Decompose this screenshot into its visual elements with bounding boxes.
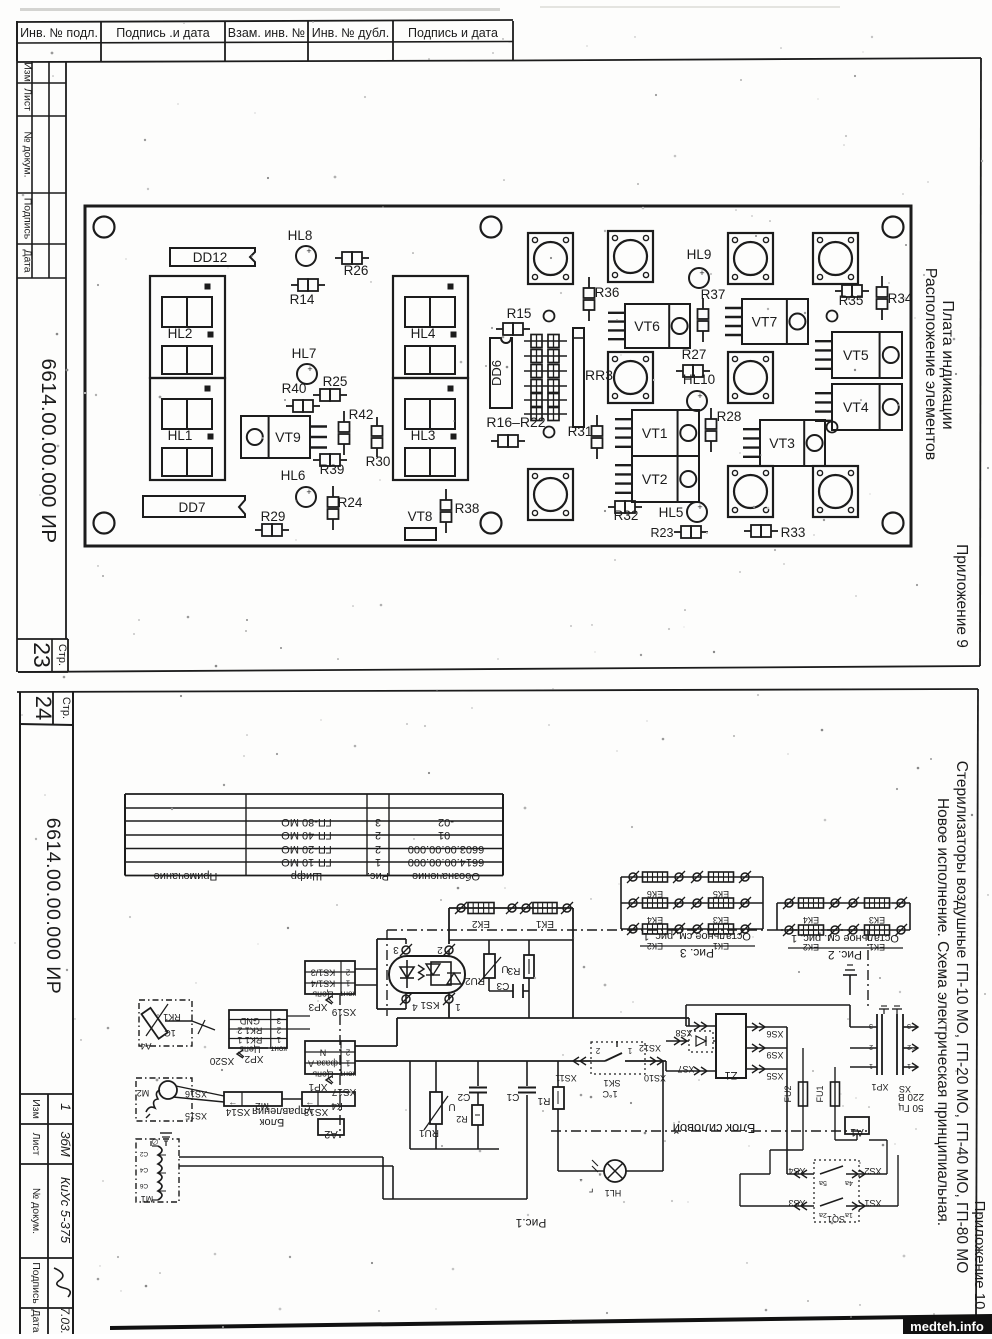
svg-text:ЕК2: ЕК2: [472, 918, 490, 929]
svg-text:Изм: Изм: [30, 1099, 42, 1119]
svg-text:XS3: XS3: [788, 1198, 805, 1208]
svg-text:∅: ∅: [151, 1137, 158, 1146]
svg-text:XS16: XS16: [185, 1089, 207, 1099]
svg-text:VT3: VT3: [769, 435, 795, 451]
svg-text:U: U: [501, 963, 508, 974]
svg-text:HL5: HL5: [659, 505, 684, 520]
svg-text:Остальное см. рис. 1: Остальное см. рис. 1: [791, 932, 899, 944]
svg-text:R25: R25: [323, 374, 348, 389]
svg-text:Изм: Изм: [22, 62, 34, 82]
svg-text:R2: R2: [456, 1114, 468, 1124]
svg-text:XS10: XS10: [644, 1073, 666, 1083]
svg-text:М2: М2: [137, 1088, 150, 1098]
svg-text:RK1 1: RK1 1: [237, 1035, 262, 1045]
svg-text:DD7: DD7: [178, 500, 205, 515]
svg-text:R26: R26: [344, 263, 369, 278]
svg-text:управления: управления: [252, 1105, 312, 1117]
svg-text:Рис. 3: Рис. 3: [680, 946, 714, 960]
svg-text:1: 1: [58, 1103, 74, 1111]
svg-text:К4: К4: [331, 1100, 343, 1111]
svg-text:2: 2: [345, 1048, 350, 1057]
svg-text:R1: R1: [537, 1095, 550, 1106]
svg-text:С6: С6: [139, 1182, 148, 1189]
svg-text:R29: R29: [261, 509, 286, 524]
svg-text:Рис.: Рис.: [367, 870, 389, 882]
svg-text:R35: R35: [839, 293, 864, 308]
svg-text:R32: R32: [614, 508, 639, 523]
svg-text:Цепь: Цепь: [312, 990, 334, 1000]
svg-text:2: 2: [375, 843, 381, 855]
svg-text:6614.00.00.000 ИР: 6614.00.00.000 ИР: [42, 818, 64, 995]
svg-text:HL10: HL10: [683, 372, 715, 387]
svg-text:3: 3: [375, 816, 381, 828]
svg-text:Приложение 10: Приложение 10: [971, 1201, 988, 1310]
svg-text:1°С: 1°С: [602, 1089, 618, 1099]
svg-text:1: 1: [907, 1062, 911, 1069]
svg-text:HL1: HL1: [605, 1188, 622, 1198]
svg-text:1: 1: [276, 1035, 281, 1044]
svg-text:Стерилизаторы воздушные ГП-10: Стерилизаторы воздушные ГП-10 МО, ГП-20 …: [953, 761, 970, 1274]
svg-text:24: 24: [31, 696, 56, 720]
svg-text:VT4: VT4: [843, 399, 869, 415]
svg-text:1: 1: [345, 979, 350, 988]
svg-text:R23: R23: [651, 526, 674, 540]
svg-text:KS1/3: KS1/3: [311, 968, 336, 978]
svg-text:ЕК4: ЕК4: [803, 915, 819, 925]
svg-text:2а: 2а: [819, 1211, 827, 1218]
svg-text:N: N: [320, 1048, 327, 1058]
svg-text:Подпись: Подпись: [22, 198, 34, 240]
svg-text:Расположение элементов: Расположение элементов: [922, 268, 939, 461]
svg-text:Стр.: Стр.: [56, 644, 68, 666]
svg-text:R28: R28: [717, 409, 742, 424]
svg-text:RK1 2: RK1 2: [237, 1025, 262, 1035]
svg-text:HL4: HL4: [411, 326, 436, 341]
svg-text:R39: R39: [320, 462, 345, 477]
svg-text:6603.00.00.000: 6603.00.00.000: [408, 843, 484, 855]
svg-text:1: 1: [375, 856, 381, 868]
svg-text:6614.00.00.000 ИР: 6614.00.00.000 ИР: [37, 358, 60, 543]
svg-text:R24: R24: [338, 495, 363, 510]
svg-text:HL9: HL9: [687, 247, 712, 262]
svg-text:2: 2: [595, 1046, 600, 1055]
svg-text:ЕК1: ЕК1: [536, 918, 554, 929]
svg-text:220 В: 220 В: [898, 1091, 924, 1102]
svg-text:Дата: Дата: [22, 249, 34, 272]
svg-text:+: +: [697, 391, 702, 401]
svg-text:KS1: KS1: [420, 999, 439, 1010]
svg-text:+: +: [307, 364, 312, 374]
svg-text:VT5: VT5: [843, 347, 869, 363]
svg-text:М1: М1: [141, 1194, 154, 1204]
svg-text:Остальное см. рис. 1: Остальное см. рис. 1: [643, 930, 751, 942]
svg-text:2: 2: [276, 1025, 281, 1034]
svg-text:R27: R27: [682, 347, 707, 362]
svg-text:XS5: XS5: [766, 1071, 783, 1081]
svg-text:HL6: HL6: [281, 468, 306, 483]
svg-text:С4: С4: [139, 1166, 148, 1173]
svg-text:R34: R34: [888, 291, 913, 306]
svg-text:XS8: XS8: [675, 1028, 692, 1038]
svg-text:SQ1: SQ1: [827, 1214, 845, 1224]
svg-text:medteh.info: medteh.info: [910, 1319, 984, 1334]
svg-text:3: 3: [869, 1022, 873, 1029]
svg-text:1: 1: [869, 1062, 873, 1069]
svg-text:HL8: HL8: [288, 228, 313, 243]
svg-text:1: 1: [627, 1046, 632, 1055]
svg-text:50 Гц: 50 Гц: [898, 1102, 923, 1113]
svg-text:7.03.0: 7.03.0: [58, 1307, 72, 1334]
svg-text:DD6: DD6: [489, 360, 504, 386]
svg-text:2: 2: [869, 1043, 873, 1050]
svg-text:DD12: DD12: [193, 250, 228, 265]
svg-text:Блок силовой: Блок силовой: [673, 1121, 756, 1136]
svg-text:Примечание: Примечание: [154, 870, 218, 882]
svg-text:Дата: Дата: [30, 1309, 42, 1332]
svg-text:+: +: [697, 502, 702, 512]
svg-text:XP1: XP1: [308, 1081, 327, 1092]
svg-text:-01: -01: [438, 829, 454, 841]
svg-text:HL1: HL1: [168, 428, 193, 443]
svg-text:Инв. № дубл.: Инв. № дубл.: [312, 26, 389, 40]
svg-text:Подпись: Подпись: [30, 1262, 42, 1304]
svg-text:Подпись и дата: Подпись и дата: [408, 26, 498, 40]
svg-text:R14: R14: [290, 292, 315, 307]
svg-text:ХР1: ХР1: [871, 1082, 888, 1092]
svg-text:ГП-10 МО: ГП-10 МО: [281, 856, 332, 868]
svg-text:R38: R38: [455, 501, 480, 516]
svg-text:1: 1: [345, 1059, 350, 1068]
svg-text:R15: R15: [507, 306, 532, 321]
svg-text:XS11: XS11: [555, 1073, 576, 1083]
svg-text:R33: R33: [781, 525, 806, 540]
svg-text:А4: А4: [140, 1041, 151, 1051]
svg-text:XS6: XS6: [766, 1029, 783, 1039]
svg-text:2: 2: [907, 1043, 911, 1050]
svg-text:„: „: [580, 1172, 583, 1182]
svg-text:Взам. инв. №: Взам. инв. №: [228, 26, 305, 40]
svg-text:3: 3: [276, 1016, 281, 1025]
svg-text:6614.00.00.000: 6614.00.00.000: [408, 856, 484, 868]
svg-text:С2: С2: [139, 1150, 148, 1157]
svg-text:фаза А: фаза А: [308, 1059, 338, 1069]
svg-text:R37: R37: [701, 287, 726, 302]
svg-text:конт: конт: [270, 1044, 286, 1053]
svg-text:-02: -02: [438, 816, 454, 828]
svg-text:HL2: HL2: [168, 326, 193, 341]
svg-text:XP2: XP2: [244, 1053, 263, 1064]
svg-text:КиУс 5-375: КиУс 5-375: [58, 1177, 73, 1244]
svg-text:FU1: FU1: [815, 1085, 825, 1102]
svg-text:С2: С2: [457, 1091, 470, 1102]
svg-text:HL7: HL7: [292, 346, 317, 361]
svg-text:ГП-80 МО: ГП-80 МО: [281, 816, 332, 828]
svg-text:FU2: FU2: [783, 1085, 793, 1102]
svg-text:Подпись .и дата: Подпись .и дата: [116, 26, 209, 40]
svg-text:Блок: Блок: [260, 1116, 285, 1128]
svg-text:С1: С1: [506, 1091, 519, 1102]
svg-text:2: 2: [437, 944, 443, 955]
svg-text:4: 4: [412, 1001, 418, 1012]
svg-text:R30: R30: [366, 454, 391, 469]
svg-text:Лист: Лист: [30, 1133, 42, 1156]
svg-text:3бМ: 3бМ: [58, 1131, 73, 1157]
svg-text:№ докум.: № докум.: [22, 131, 34, 177]
svg-text:+: +: [306, 246, 311, 256]
svg-text:1: 1: [455, 1001, 461, 1012]
svg-text:С3: С3: [496, 980, 509, 991]
svg-text:3: 3: [907, 1022, 911, 1029]
svg-text:А2: А2: [324, 1128, 337, 1140]
svg-text:SK1: SK1: [603, 1078, 620, 1088]
svg-text:Цепь: Цепь: [312, 1070, 334, 1080]
svg-text:Цепь: Цепь: [239, 1044, 261, 1054]
svg-text:XS15: XS15: [185, 1111, 207, 1121]
svg-text:23: 23: [29, 642, 55, 668]
svg-text:Лист: Лист: [22, 88, 34, 111]
svg-text:ГП-20 МО: ГП-20 МО: [281, 843, 332, 855]
svg-text:GND: GND: [239, 1016, 260, 1026]
svg-text:R42: R42: [349, 407, 374, 422]
svg-text:5а: 5а: [819, 1179, 827, 1186]
svg-text:ЕК3: ЕК3: [869, 915, 885, 925]
svg-text:1а: 1а: [845, 1211, 853, 1218]
svg-text:конт: конт: [340, 990, 356, 999]
svg-text:HL3: HL3: [411, 428, 436, 443]
svg-text:XS20: XS20: [209, 1055, 234, 1066]
svg-text:R36: R36: [595, 285, 620, 300]
svg-text:XS9: XS9: [766, 1050, 783, 1060]
svg-text:R3: R3: [507, 965, 520, 976]
svg-text:KS1/4: KS1/4: [311, 979, 336, 989]
svg-text:Стр.: Стр.: [60, 697, 72, 719]
svg-text:XS12: XS12: [639, 1043, 661, 1053]
svg-text:2: 2: [345, 968, 350, 977]
svg-text:XP3: XP3: [308, 1001, 327, 1012]
svg-text:Обозначение: Обозначение: [412, 870, 480, 882]
svg-text:+: +: [699, 268, 704, 278]
svg-text:XS14: XS14: [225, 1106, 250, 1117]
svg-text:VT1: VT1: [642, 425, 668, 441]
svg-text:VT6: VT6: [634, 318, 660, 334]
svg-text:U: U: [448, 1101, 455, 1112]
svg-text:XS4: XS4: [788, 1166, 805, 1176]
svg-text:VT8: VT8: [408, 509, 433, 524]
svg-text:2: 2: [375, 829, 381, 841]
svg-text:VT7: VT7: [752, 314, 778, 330]
svg-text:R40: R40: [282, 381, 307, 396]
svg-text:XS19: XS19: [331, 1006, 356, 1017]
svg-text:⌜: ⌜: [588, 1181, 593, 1193]
svg-text:RU2: RU2: [465, 975, 485, 986]
svg-text:4а: 4а: [845, 1179, 853, 1186]
svg-text:Плата индикации: Плата индикации: [939, 300, 956, 429]
svg-text:”: ”: [599, 1172, 602, 1182]
svg-text:Новое исполнение. Схема электр: Новое исполнение. Схема электрическая пр…: [934, 798, 951, 1226]
svg-text:XS7: XS7: [677, 1064, 694, 1074]
svg-text:Приложение 9: Приложение 9: [953, 544, 970, 648]
svg-text:Z1: Z1: [725, 1069, 738, 1081]
svg-text:Инв. № подл.: Инв. № подл.: [20, 26, 98, 40]
svg-text:1С: 1С: [164, 1028, 176, 1038]
svg-text:ГП-40 МО: ГП-40 МО: [281, 829, 332, 841]
svg-text:3: 3: [393, 944, 399, 955]
svg-text:№ докум.: № докум.: [30, 1188, 42, 1234]
svg-text:+: +: [306, 487, 311, 497]
svg-text:Шифр: Шифр: [291, 870, 322, 882]
svg-text:конт: конт: [340, 1070, 356, 1079]
svg-text:Рис. 2: Рис. 2: [828, 948, 862, 962]
svg-text:Рис.1: Рис.1: [515, 1216, 546, 1230]
svg-text:VT2: VT2: [642, 471, 668, 487]
svg-text:VT9: VT9: [275, 429, 301, 445]
